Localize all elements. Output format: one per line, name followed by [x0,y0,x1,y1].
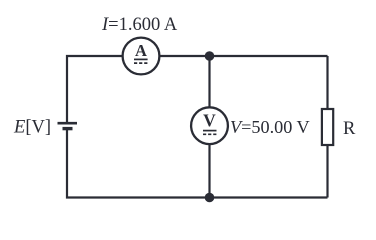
battery E [58,123,78,128]
voltmeter U2 [191,107,228,144]
node B (bottom junction) [205,193,215,203]
svg-text:I=1.600 A: I=1.600 A [101,15,178,35]
wire top-left segment (battery top to ammeter) [67,56,123,123]
svg-text:E[V]: E[V] [13,117,51,137]
svg-text:R: R [343,119,356,139]
wire left-bottom segment (battery to bottom-left corner) [67,129,210,198]
resistor R [322,109,333,145]
wire top segment (ammeter to top-right corner) [160,55,328,57]
wire middle branch lower (voltmeter to node B) [208,144,210,198]
wire right segment (resistor to bottom-right corner) [326,145,328,198]
ammeter U1 [123,38,160,75]
wire bottom-right segment [210,196,328,198]
svg-text:V: V [203,111,216,131]
wire right segment (top-right corner to resistor) [326,56,328,109]
svg-text:A: A [135,41,147,60]
svg-text:V=50.00 V: V=50.00 V [230,117,310,137]
node A (top junction) [205,51,215,61]
wire middle branch upper (node A to voltmeter) [208,56,210,108]
